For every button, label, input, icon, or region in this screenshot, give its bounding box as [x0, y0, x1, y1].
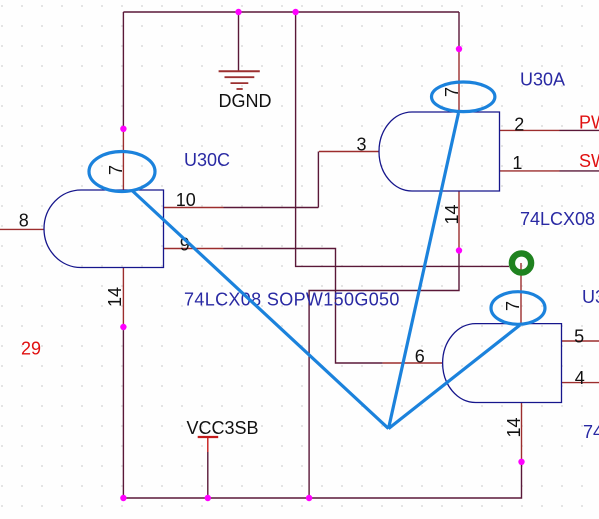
svg-text:3: 3 [357, 135, 367, 155]
svg-text:U30A: U30A [520, 70, 565, 90]
svg-text:14: 14 [105, 287, 125, 307]
svg-text:U30D: U30D [582, 287, 599, 307]
svg-text:1: 1 [512, 153, 522, 173]
svg-text:74LCX08 SOPW150G050: 74LCX08 SOPW150G050 [184, 290, 400, 310]
svg-text:4: 4 [575, 368, 585, 388]
svg-text:7: 7 [503, 301, 523, 311]
svg-text:SWI: SWI [579, 151, 599, 171]
svg-text:U30C: U30C [184, 150, 230, 170]
svg-text:5: 5 [574, 326, 584, 346]
svg-text:7: 7 [106, 165, 126, 175]
svg-text:10: 10 [176, 190, 196, 210]
svg-text:8: 8 [19, 210, 29, 230]
svg-text:14: 14 [504, 417, 524, 437]
svg-text:74LCX08: 74LCX08 [520, 209, 595, 229]
svg-text:29: 29 [21, 338, 41, 358]
svg-text:14: 14 [442, 204, 462, 224]
svg-text:2: 2 [514, 114, 524, 134]
svg-text:6: 6 [415, 346, 425, 366]
svg-text:7: 7 [442, 87, 462, 97]
svg-text:PWR: PWR [579, 113, 599, 133]
svg-text:VCC3SB: VCC3SB [187, 418, 259, 438]
svg-text:DGND: DGND [219, 91, 272, 111]
svg-text:74LCX08: 74LCX08 [583, 422, 599, 442]
